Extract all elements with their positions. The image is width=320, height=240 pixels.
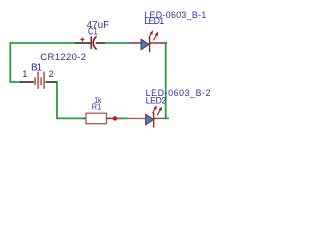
- wire: battery pin1 to top-left corner to capacitor: [10, 43, 75, 82]
- battery B1 plate tall 2: [43, 72, 45, 89]
- svg-text:R1: R1: [92, 102, 102, 112]
- battery B1 plate short 1: [34, 77, 36, 85]
- LED2 emission arrow 2: [157, 108, 162, 116]
- LED1 cathode pin wire: [150, 42, 166, 44]
- wire: capacitor to LED1: [105, 42, 129, 44]
- LED1 anode pin wire: [128, 42, 141, 44]
- LED2 triangle: [146, 114, 154, 124]
- capacitor C1 positive plate: [90, 36, 92, 49]
- LED2 cathode bar: [153, 112, 155, 127]
- svg-text:2: 2: [49, 69, 54, 79]
- svg-text:C1: C1: [88, 27, 98, 38]
- battery B1 plate tall 1: [37, 72, 39, 89]
- capacitor plus sign: [80, 38, 84, 42]
- svg-text:LED2: LED2: [146, 95, 167, 105]
- resistor R1 right pin wire: [107, 117, 113, 119]
- battery B1 plate short 2: [40, 77, 42, 85]
- LED2 emission arrow 1: [153, 106, 157, 113]
- LED1 triangle: [141, 39, 149, 49]
- battery B1 pin 1 wire: [20, 81, 34, 83]
- LED1 cathode bar: [149, 37, 151, 52]
- junction dot: [113, 116, 117, 120]
- svg-text:B1: B1: [31, 63, 42, 74]
- wire: battery pin2 down and along bottom to resistor: [57, 83, 84, 119]
- battery B1 pin 2 wire: [46, 81, 58, 83]
- wire: resistor to LED2: [112, 117, 127, 119]
- svg-text:1: 1: [22, 69, 27, 79]
- LED2 anode pin wire: [128, 117, 146, 119]
- capacitor C1 curved negative plate: [93, 36, 96, 49]
- LED1 emission arrow 2: [153, 33, 158, 41]
- capacitor C1 pin 2 wire: [96, 42, 105, 44]
- resistor R1 body: [86, 113, 107, 124]
- LED2 cathode pin wire: [154, 117, 165, 119]
- capacitor C1 pin 1 wire: [75, 42, 90, 44]
- svg-text:LED1: LED1: [144, 16, 164, 26]
- LED1 emission arrow 1: [149, 31, 153, 38]
- svg-text:CR1220-2: CR1220-2: [40, 52, 86, 63]
- resistor R1 left pin wire: [84, 117, 87, 119]
- wire: LED1 right, down right side, to LED2 right: [164, 43, 169, 118]
